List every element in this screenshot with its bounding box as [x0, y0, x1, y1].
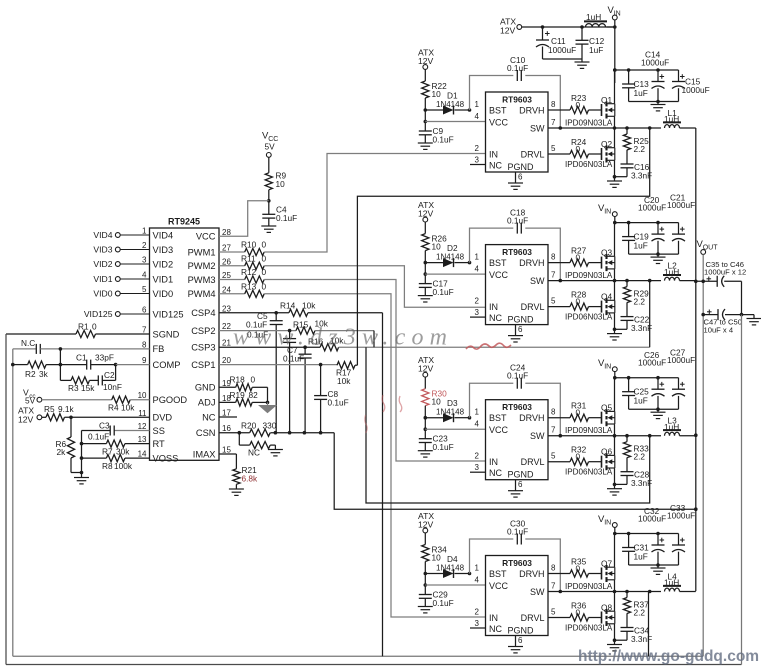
- resistor R3 15k with capacitor C2 10nF branch: [60, 365, 122, 393]
- svg-text:R8: R8: [102, 461, 113, 471]
- svg-text:30k: 30k: [116, 446, 130, 456]
- terminal ATX 12V driver 2: [418, 200, 434, 222]
- svg-text:3.3nF: 3.3nF: [631, 170, 652, 180]
- svg-text:BST: BST: [489, 413, 507, 423]
- wire SW row driver 3: [548, 434, 661, 438]
- svg-text:VID4: VID4: [153, 230, 174, 240]
- capacitor C33 1000uF: [667, 503, 695, 565]
- svg-text:12V: 12V: [18, 415, 34, 425]
- resistor R19 82 on ADJ row: [219, 390, 269, 406]
- svg-text:IPD09N03LA: IPD09N03LA: [565, 582, 613, 591]
- svg-text:VID0: VID0: [93, 289, 112, 299]
- svg-text:VID2: VID2: [93, 259, 112, 269]
- svg-text:http://www.go-gddq.com: http://www.go-gddq.com: [578, 648, 759, 665]
- wire VCC driver 4: [425, 584, 485, 586]
- ground PGND driver 4: [508, 636, 523, 653]
- svg-text:33pF: 33pF: [95, 353, 114, 363]
- svg-text:20: 20: [222, 356, 231, 365]
- svg-text:4: 4: [475, 420, 480, 429]
- svg-text:10: 10: [432, 397, 442, 407]
- svg-text:VCC: VCC: [489, 425, 509, 435]
- svg-text:0: 0: [92, 322, 97, 332]
- svg-text:VID3: VID3: [153, 245, 174, 255]
- U1 pin names and numbers: [138, 227, 232, 464]
- svg-text:0: 0: [576, 100, 581, 110]
- svg-text:3.3nF: 3.3nF: [631, 323, 652, 333]
- VID input terminals pins 1-6: [84, 230, 150, 319]
- svg-text:1000uF: 1000uF: [638, 203, 666, 213]
- svg-text:IPD06N03LA: IPD06N03LA: [565, 468, 613, 477]
- svg-text:2.2: 2.2: [634, 144, 646, 154]
- svg-text:IN: IN: [604, 209, 611, 216]
- svg-text:1uF: 1uF: [634, 552, 648, 562]
- svg-text:NC: NC: [489, 468, 502, 478]
- svg-text:VID3: VID3: [93, 245, 112, 255]
- resistor R12 0 on PWM2 row: [219, 267, 267, 283]
- svg-text:0.1uF: 0.1uF: [433, 135, 454, 145]
- resistor R6 2k: [56, 417, 82, 472]
- wire CSP4 sense drop: [382, 313, 384, 656]
- ground below Q2: [607, 177, 622, 188]
- terminal ATX 12V top: [500, 17, 522, 36]
- capacitor C25 1uF: [622, 378, 649, 410]
- svg-text:82: 82: [249, 390, 259, 400]
- svg-text:IN: IN: [489, 149, 498, 159]
- svg-text:1N4148: 1N4148: [436, 253, 465, 262]
- svg-text:RT: RT: [153, 439, 166, 449]
- diode D2 1N4148: [424, 243, 472, 267]
- transistor Q3 IPD09N03LA: [565, 223, 615, 281]
- capacitor C31 1uF: [622, 534, 649, 566]
- svg-text:VID0: VID0: [153, 289, 174, 299]
- svg-text:IN: IN: [489, 613, 498, 623]
- svg-text:VID4: VID4: [93, 230, 112, 240]
- svg-text:5: 5: [551, 608, 556, 617]
- svg-text:SW: SW: [530, 431, 545, 441]
- svg-text:2: 2: [475, 297, 480, 306]
- capacitor C4 0.1uF: [261, 201, 297, 233]
- svg-text:Q5: Q5: [601, 403, 612, 413]
- resistor R1 0 on SGND row: [76, 322, 97, 338]
- capacitor C30 0.1uF bootstrap: [470, 519, 561, 592]
- capacitor C17 0.1uF: [419, 263, 454, 298]
- resistor R33 2.2 snubber: [623, 436, 649, 472]
- svg-text:DVD: DVD: [153, 413, 173, 423]
- ground below C23: [418, 451, 433, 457]
- svg-text:9.1k: 9.1k: [58, 404, 75, 414]
- svg-text:1000uF: 1000uF: [548, 45, 576, 55]
- capacitor C28 3.3nF snubber: [615, 470, 653, 489]
- wire FB pin8 row: [59, 347, 150, 365]
- terminal VIN driver 2: [598, 203, 679, 224]
- capacitor C32 1000uF: [638, 506, 666, 567]
- svg-text:IPD06N03LA: IPD06N03LA: [565, 160, 613, 169]
- transistor Q4 IPD06N03LA: [565, 281, 616, 332]
- svg-text:0: 0: [262, 282, 267, 292]
- ground below R19: [260, 402, 276, 412]
- svg-text:NC: NC: [202, 412, 216, 422]
- wire cap bank bottom driver 2: [629, 253, 679, 255]
- svg-text:7: 7: [551, 118, 556, 127]
- resistor R34 10: [422, 533, 447, 574]
- resistor R13 0 on PWM3 row: [219, 282, 267, 298]
- capacitor C21 1000uF: [667, 192, 695, 254]
- wire NC stub driver 4: [470, 627, 486, 629]
- wire cap bank bottom driver 3: [629, 408, 679, 410]
- svg-text:BST: BST: [489, 258, 507, 268]
- terminal VIN driver 4: [598, 514, 679, 535]
- resistor R25 2.2 snubber: [623, 128, 649, 164]
- svg-text:BST: BST: [489, 105, 507, 115]
- terminal Vcc 5V for PGOOD: [23, 387, 112, 405]
- svg-text:6.8k: 6.8k: [242, 473, 259, 483]
- op-amp U2 RT9603 driver 1 body: [486, 92, 549, 172]
- svg-text:0.1uF: 0.1uF: [283, 354, 304, 364]
- svg-text:CSP1: CSP1: [191, 360, 215, 370]
- svg-text:17: 17: [222, 409, 231, 418]
- svg-text:Q8: Q8: [601, 603, 612, 613]
- svg-text:SW: SW: [530, 276, 545, 286]
- wire SW row driver 1: [548, 126, 661, 130]
- svg-text:RT9603: RT9603: [502, 247, 532, 257]
- resistor R30 10: [422, 377, 447, 418]
- svg-text:R3: R3: [68, 383, 79, 393]
- svg-text:1000uF: 1000uF: [667, 355, 695, 365]
- svg-text:24: 24: [222, 285, 231, 294]
- svg-text:R10: R10: [241, 240, 257, 250]
- svg-text:0.1uF: 0.1uF: [433, 598, 454, 608]
- svg-text:R18: R18: [230, 374, 246, 384]
- svg-text:0: 0: [576, 408, 581, 418]
- svg-text:PWM3: PWM3: [188, 275, 216, 285]
- capacitor C7 0.1uF: [283, 345, 312, 433]
- svg-text:DRVH: DRVH: [519, 258, 544, 268]
- svg-text:RT9603: RT9603: [502, 95, 532, 105]
- svg-text:PGOOD: PGOOD: [153, 395, 188, 405]
- svg-text:6: 6: [518, 636, 523, 645]
- diode D3 1N4148: [424, 398, 472, 422]
- wire VCC driver 2: [425, 273, 485, 275]
- capacitor C5 0.1uF: [246, 311, 283, 433]
- svg-text:R11: R11: [241, 254, 256, 264]
- svg-text:PWM4: PWM4: [188, 289, 216, 299]
- wire NC stub driver 1: [470, 164, 486, 166]
- svg-text:7: 7: [551, 582, 556, 591]
- svg-text:C1: C1: [76, 353, 87, 363]
- wire PWM route R11 to driver IN: [264, 266, 485, 307]
- svg-text:0.1uF: 0.1uF: [88, 431, 109, 441]
- svg-text:C2: C2: [104, 370, 115, 380]
- svg-text:1uF: 1uF: [634, 241, 648, 251]
- resistor R29 2.2 snubber: [623, 281, 649, 317]
- svg-text:27: 27: [222, 244, 231, 253]
- terminal Vcc 5V top: [262, 131, 278, 158]
- svg-text:0.1uF: 0.1uF: [328, 397, 349, 407]
- ground cap bank driver 4: [651, 565, 666, 574]
- transistor Q2 IPD06N03LA: [565, 128, 616, 179]
- node/wire far-left FB remote line: [13, 349, 703, 656]
- svg-text:0: 0: [576, 144, 581, 154]
- svg-text:PGND: PGND: [508, 626, 535, 636]
- svg-text:1uF: 1uF: [589, 45, 603, 55]
- svg-text:PWM2: PWM2: [188, 261, 216, 271]
- svg-text:1N4148: 1N4148: [436, 408, 465, 417]
- svg-text:IN: IN: [489, 457, 498, 467]
- svg-text:RT9603: RT9603: [502, 558, 532, 568]
- svg-text:R13: R13: [241, 282, 257, 292]
- ground cap bank driver 3: [651, 409, 666, 418]
- resistor R4 10k on PGOOD row: [108, 396, 150, 413]
- svg-text:1000uF: 1000uF: [682, 85, 710, 95]
- svg-text:D2: D2: [447, 243, 458, 253]
- svg-text:0.1uF: 0.1uF: [276, 213, 297, 223]
- svg-text:4: 4: [142, 271, 147, 280]
- svg-text:IPD06N03LA: IPD06N03LA: [565, 623, 613, 632]
- svg-text:R19: R19: [230, 390, 246, 400]
- svg-text:10: 10: [138, 391, 147, 400]
- svg-text:10: 10: [276, 179, 286, 189]
- inductor 1uH input: [584, 12, 615, 27]
- wire NC stub driver 2: [470, 316, 486, 318]
- svg-text:R5: R5: [44, 404, 55, 414]
- ground below C29: [418, 607, 433, 613]
- svg-text:3.3nF: 3.3nF: [631, 634, 652, 644]
- svg-text:5: 5: [142, 285, 147, 294]
- svg-text:COMP: COMP: [153, 360, 181, 370]
- svg-text:1N4148: 1N4148: [436, 564, 465, 573]
- svg-text:1000uF: 1000uF: [641, 58, 669, 68]
- svg-text:DRVH: DRVH: [519, 569, 544, 579]
- wire VCC pin28 trace: [219, 199, 271, 236]
- svg-text:N.C: N.C: [21, 338, 35, 348]
- capacitor C1 33pF: [46, 353, 117, 370]
- svg-text:7: 7: [551, 271, 556, 280]
- svg-text:PGND: PGND: [508, 470, 535, 480]
- resistor R5 9.1k on DVD row: [44, 404, 150, 421]
- svg-text:VCC: VCC: [489, 581, 509, 591]
- svg-text:4: 4: [475, 112, 480, 121]
- svg-text:3.3nF: 3.3nF: [631, 478, 652, 488]
- svg-text:100k: 100k: [114, 461, 133, 471]
- inductor L4 1uH: [663, 571, 696, 591]
- svg-text:D3: D3: [447, 398, 458, 408]
- svg-text:1: 1: [475, 408, 480, 417]
- svg-text:1000uF: 1000uF: [638, 358, 666, 368]
- svg-text:13: 13: [138, 435, 147, 444]
- svg-text:SGND: SGND: [153, 329, 180, 339]
- svg-text:DRVL: DRVL: [521, 302, 545, 312]
- svg-text:VID2: VID2: [153, 259, 174, 269]
- svg-text:3: 3: [142, 256, 147, 265]
- svg-text:IMAX: IMAX: [193, 449, 216, 459]
- terminal VIN driver 3: [598, 358, 679, 379]
- svg-text:R2: R2: [25, 369, 36, 379]
- svg-text:3: 3: [475, 463, 480, 472]
- wire PWM route R12 to driver IN: [264, 280, 485, 462]
- U5 pin names and numbers: [475, 564, 556, 646]
- svg-text:10k: 10k: [121, 403, 135, 413]
- svg-text:11: 11: [138, 409, 147, 418]
- resistor R18 0 on GND row: [219, 374, 268, 402]
- capacitor C14 1000uF: [641, 50, 669, 104]
- resistor R15 10k on CSP2 row: [219, 319, 374, 335]
- capacitor C3 0.1uF on SS row: [82, 420, 150, 443]
- capacitor C34 3.3nF snubber: [615, 625, 653, 644]
- svg-text:8: 8: [551, 408, 556, 417]
- wire PWM route R10 to driver IN: [264, 154, 485, 253]
- svg-text:9: 9: [142, 356, 147, 365]
- wire phase3 sense line: [366, 347, 650, 503]
- wire phase1 sense line: [357, 128, 649, 365]
- svg-text:1000uF: 1000uF: [667, 511, 695, 521]
- svg-text:330: 330: [263, 420, 277, 430]
- svg-text:SW: SW: [530, 587, 545, 597]
- svg-text:14: 14: [138, 450, 147, 459]
- svg-text:R14: R14: [280, 301, 296, 311]
- svg-text:C3: C3: [99, 420, 110, 430]
- svg-text:5: 5: [551, 144, 556, 153]
- resistor R16 10k on CSP3 row: [219, 336, 344, 351]
- svg-text:22: 22: [222, 322, 231, 331]
- wire NC pin17 stub: [219, 416, 237, 418]
- svg-text:1: 1: [475, 253, 480, 262]
- svg-text:R20: R20: [241, 420, 257, 430]
- svg-text:CSP2: CSP2: [191, 326, 215, 336]
- svg-text:10: 10: [432, 89, 442, 99]
- transistor Q6 IPD06N03LA: [565, 436, 616, 487]
- capacitor C6 0.1uF: [247, 329, 296, 432]
- wire cap bank bottom driver 1: [629, 101, 679, 103]
- svg-text:5: 5: [551, 452, 556, 461]
- U3 pin names and numbers: [475, 253, 556, 335]
- wire GND sense line: [741, 315, 743, 665]
- capacitor C22 3.3nF snubber: [615, 314, 653, 333]
- svg-text:10: 10: [432, 553, 442, 563]
- svg-text:DRVH: DRVH: [519, 105, 544, 115]
- resistor R9 10: [265, 157, 286, 201]
- svg-text:2.2: 2.2: [634, 297, 646, 307]
- op-amp U1 RT9245 controller IC body: [150, 217, 220, 461]
- resistor R23 0: [548, 93, 602, 114]
- resistor R7 30k on RT row: [80, 440, 150, 458]
- svg-text:8: 8: [551, 100, 556, 109]
- capacitor C24 0.1uF bootstrap: [470, 363, 561, 436]
- terminal ATX 12V driver 1: [418, 48, 434, 70]
- svg-text:15k: 15k: [81, 383, 95, 393]
- resistor R35 0: [548, 557, 602, 578]
- resistor R20 330 on CSN row: [219, 420, 334, 436]
- svg-text:IN: IN: [604, 520, 611, 527]
- svg-text:23: 23: [222, 304, 231, 313]
- ground PGND driver 3: [508, 480, 523, 497]
- ground below Q8: [607, 640, 622, 651]
- svg-text:8: 8: [551, 253, 556, 262]
- svg-text:0.1uF: 0.1uF: [507, 527, 528, 537]
- svg-text:VCC: VCC: [196, 232, 216, 242]
- wire COMP pin9 row: [116, 364, 150, 366]
- svg-text:2.2: 2.2: [634, 608, 646, 618]
- svg-text:DRVL: DRVL: [521, 149, 545, 159]
- svg-text:10uF x 4: 10uF x 4: [704, 326, 734, 335]
- svg-text:D1: D1: [447, 91, 458, 101]
- svg-text:6: 6: [518, 480, 523, 489]
- svg-text:Q6: Q6: [601, 447, 612, 457]
- svg-text:DRVL: DRVL: [521, 613, 545, 623]
- svg-text:1uF: 1uF: [634, 396, 648, 406]
- wire VCC driver 1: [425, 121, 485, 123]
- svg-text:8: 8: [551, 564, 556, 573]
- svg-text:SS: SS: [153, 426, 165, 436]
- wire CSN to VOUT rail: [334, 433, 697, 511]
- svg-text:Q2: Q2: [601, 139, 612, 149]
- svg-text:7: 7: [142, 326, 147, 335]
- node/wire far-left SGND remote line: [6, 334, 742, 665]
- svg-text:8: 8: [142, 340, 147, 349]
- resistor R8 100k on VOSS row: [80, 455, 150, 475]
- svg-text:0: 0: [576, 253, 581, 263]
- svg-text:15: 15: [222, 446, 231, 455]
- svg-text:DRVL: DRVL: [521, 457, 545, 467]
- svg-text:NC: NC: [489, 624, 502, 634]
- svg-text:5: 5: [551, 297, 556, 306]
- svg-text:IN: IN: [489, 302, 498, 312]
- capacitor C29 0.1uF: [419, 574, 454, 609]
- watermark go-gddq url: [578, 648, 759, 665]
- svg-text:IN: IN: [604, 364, 611, 371]
- svg-text:PGND: PGND: [508, 162, 535, 172]
- U2 pin names and numbers: [475, 100, 556, 182]
- svg-text:R4: R4: [108, 403, 119, 413]
- ground output caps: [747, 315, 761, 325]
- transistor Q5 IPD09N03LA: [565, 378, 615, 436]
- svg-text:26: 26: [222, 257, 231, 266]
- svg-text:ADJ: ADJ: [198, 398, 216, 408]
- svg-text:GND: GND: [195, 383, 216, 393]
- svg-text:0.1uF: 0.1uF: [433, 287, 454, 297]
- red mark annotation 3: [365, 415, 368, 433]
- inductor L2 1uH: [663, 260, 696, 280]
- svg-text:16: 16: [222, 424, 231, 433]
- svg-text:IPD09N03LA: IPD09N03LA: [565, 426, 613, 435]
- resistor R36 0: [548, 601, 602, 622]
- resistor R31 0: [548, 401, 602, 422]
- svg-text:1000uF: 1000uF: [667, 200, 695, 210]
- transistor Q1 IPD09N03LA: [565, 70, 615, 128]
- svg-text:2: 2: [142, 241, 147, 250]
- wire VIN down to Q1 drain: [613, 68, 617, 83]
- svg-text:0: 0: [262, 254, 267, 264]
- transistor Q7 IPD09N03LA: [565, 534, 615, 592]
- capacitor C19 1uF: [622, 223, 649, 255]
- svg-text:Q7: Q7: [601, 559, 612, 569]
- terminal VOUT: [697, 239, 719, 656]
- svg-text:1000uF x 12: 1000uF x 12: [704, 268, 746, 277]
- ground cap bank driver 2: [651, 254, 666, 263]
- svg-text:4: 4: [475, 576, 480, 585]
- wire filter bottom: [543, 58, 583, 60]
- svg-text:IPD09N03LA: IPD09N03LA: [565, 119, 613, 128]
- svg-text:10nF: 10nF: [103, 382, 122, 392]
- svg-text:0: 0: [576, 452, 581, 462]
- resistor R21 6.8k on IMAX: [219, 454, 258, 489]
- resistor R2 3k on COMP row: [11, 361, 49, 379]
- wire VIN rail to cap bank: [613, 68, 679, 72]
- resistor R26 10: [422, 222, 447, 263]
- capacitor C10 0.1uF bootstrap: [470, 55, 561, 128]
- ground input filter: [575, 59, 590, 68]
- wire SW row driver 4: [548, 590, 661, 594]
- wire main output rail: [694, 128, 698, 591]
